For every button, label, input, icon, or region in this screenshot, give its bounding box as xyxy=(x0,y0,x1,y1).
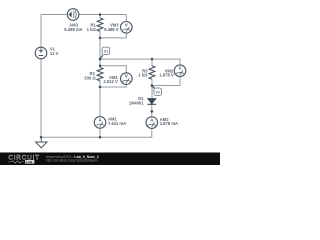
svg-text:1N4001: 1N4001 xyxy=(129,100,144,105)
wire VM2 top branch xyxy=(152,59,180,65)
svg-text:9.488 V: 9.488 V xyxy=(104,27,119,32)
junction dot bottom of R1/VM3 xyxy=(99,37,102,40)
svg-text:1.878 mA: 1.878 mA xyxy=(160,121,178,126)
wire AM1 bottom stub xyxy=(99,128,101,137)
wire VM1 bottom branch xyxy=(100,84,126,87)
svg-text:V1: V1 xyxy=(104,49,108,53)
voltmeter VM2 xyxy=(159,65,185,78)
node V1 label xyxy=(100,47,110,59)
wire bottom rail xyxy=(41,129,152,138)
ammeter AM2 xyxy=(146,117,178,129)
voltmeter VM3 xyxy=(104,22,132,34)
junction dot VM1 top tap xyxy=(99,64,102,67)
junction dot ground xyxy=(40,136,43,139)
junction dot node V1 xyxy=(99,58,102,61)
wire VM1 top branch xyxy=(100,66,126,73)
wire left vertical bottom: V1 bottom to bottom rail xyxy=(40,59,42,138)
svg-text:http://circuitlab.com/c/qt3cph: http://circuitlab.com/c/qt3cphh6aaem xyxy=(46,159,98,163)
CircuitLab logo xyxy=(8,155,40,164)
junction dot R3 top xyxy=(151,58,154,61)
svg-text:1 kΩ: 1 kΩ xyxy=(138,73,148,78)
ammeter AM1 xyxy=(94,117,126,129)
junction dot top of R1 xyxy=(99,13,102,16)
wire VM3 top stub xyxy=(125,15,127,22)
svg-text:1.878 V: 1.878 V xyxy=(159,73,174,78)
wire VM2 bottom branch xyxy=(152,77,180,86)
wire R3 column xyxy=(151,59,153,98)
wire R1 column down to node V1 xyxy=(99,15,101,66)
svg-text:7.611 mA: 7.611 mA xyxy=(108,121,126,126)
ammeter AM3 xyxy=(64,9,82,32)
wire VM3 bottom stub xyxy=(100,33,126,38)
svg-text:330 Ω: 330 Ω xyxy=(84,76,96,81)
voltmeter VM1 xyxy=(103,73,132,85)
diode D1 xyxy=(129,96,156,105)
svg-text:9.488 mA: 9.488 mA xyxy=(64,27,82,32)
resistor R2 xyxy=(84,68,103,81)
wire D1 to AM2 xyxy=(151,104,153,117)
wire left vertical top: corner to V1 top xyxy=(40,15,42,48)
svg-text:2.512 V: 2.512 V xyxy=(103,79,118,84)
wire AM3 to VM3 corner xyxy=(79,14,126,16)
footer credits xyxy=(46,155,99,163)
node V2 label xyxy=(152,86,162,96)
resistor R1 xyxy=(87,18,103,32)
ground xyxy=(36,137,47,148)
svg-text:LAB: LAB xyxy=(26,160,33,164)
wire node V1 to R3 branch xyxy=(100,58,152,60)
svg-text:1 kΩ: 1 kΩ xyxy=(87,27,97,32)
svg-text:12 V: 12 V xyxy=(50,51,59,56)
junction dot AM1 bottom xyxy=(99,136,102,139)
node dot below D1 xyxy=(151,110,154,113)
junction dot R2 bottom xyxy=(99,86,102,89)
svg-text:V2: V2 xyxy=(155,90,159,94)
junction dot node V2 xyxy=(151,84,154,87)
wire R2 bottom junction xyxy=(99,81,101,117)
resistor R3 xyxy=(138,66,155,79)
wire top rail xyxy=(41,14,67,16)
footer bar xyxy=(0,153,220,166)
voltage source V1 xyxy=(35,47,59,59)
